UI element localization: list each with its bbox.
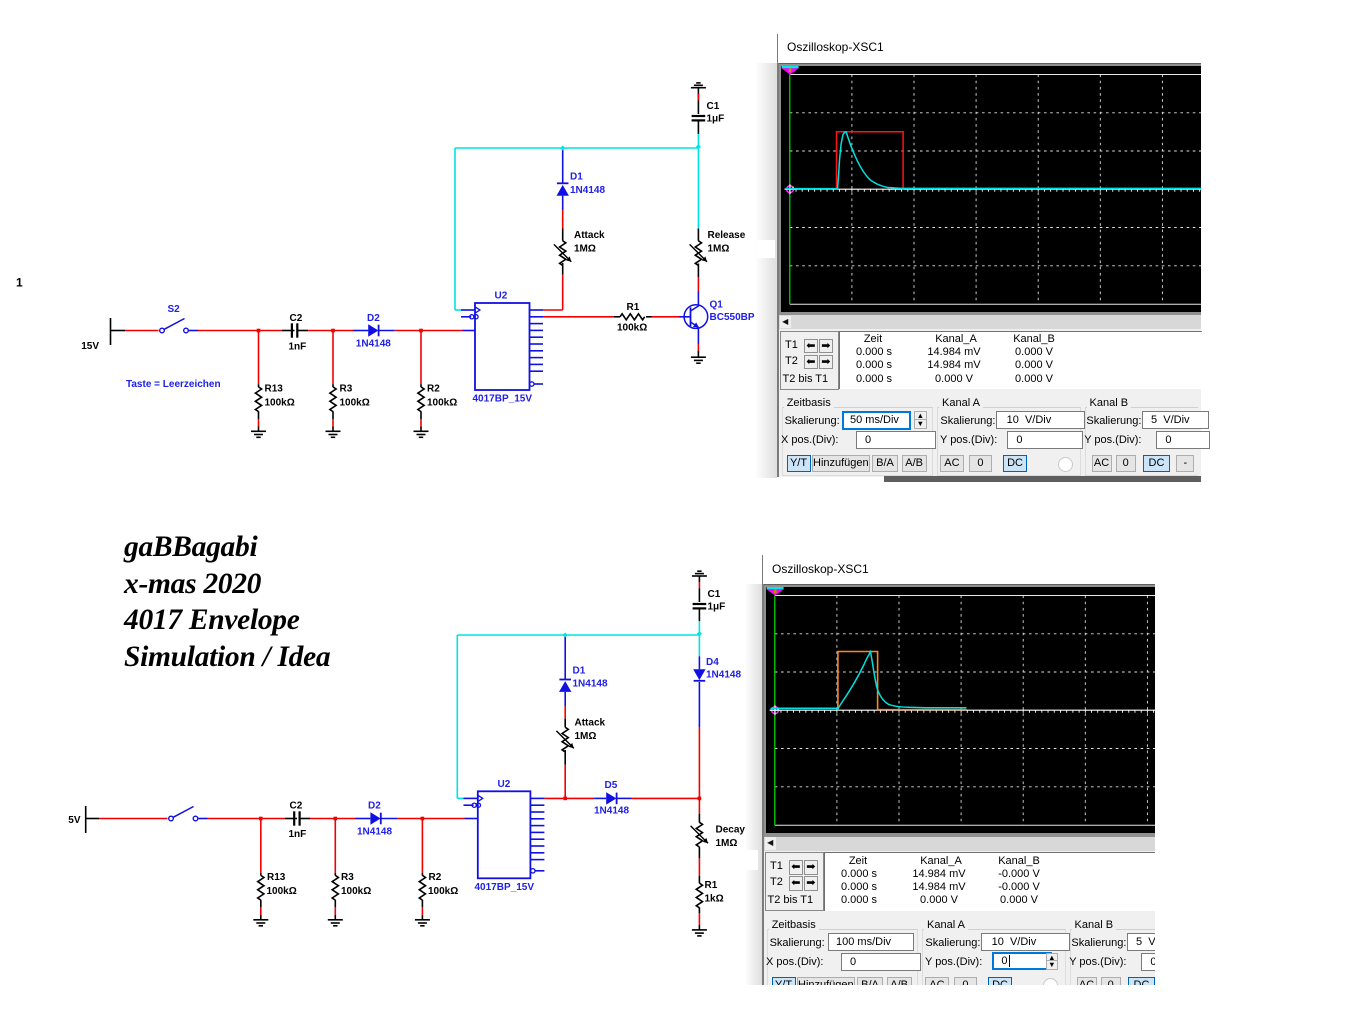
node junction R13 bbox=[257, 329, 261, 333]
U2 output pin Q7 bbox=[530, 845, 544, 847]
svg-text:D1: D1 bbox=[570, 172, 583, 183]
readout row 1 bbox=[827, 868, 891, 880]
U2 output pin Q3 bbox=[530, 818, 544, 820]
potentiometer Decay 1M bbox=[691, 798, 708, 883]
A/B button bbox=[887, 977, 912, 994]
Kanal B 0 button bbox=[1116, 455, 1136, 472]
ground below R2 bbox=[415, 920, 430, 926]
scope display bbox=[766, 587, 1186, 833]
scope graticule bbox=[781, 66, 1201, 312]
Q1 emitter wire to ground bbox=[697, 328, 699, 358]
node junction R3 bbox=[331, 329, 335, 333]
svg-text:D2: D2 bbox=[367, 313, 380, 324]
capacitor C2 1nF bbox=[282, 323, 308, 337]
IC U2 4017BP_15V bbox=[473, 291, 533, 405]
ground below R3 bbox=[328, 920, 343, 926]
svg-text:R13: R13 bbox=[265, 384, 284, 395]
top window shadow band bbox=[755, 63, 777, 478]
svg-text:1N4148: 1N4148 bbox=[573, 679, 608, 690]
R2 labels bbox=[427, 384, 457, 409]
svg-text:D2: D2 bbox=[368, 801, 381, 812]
Kanal B AC button bbox=[1077, 977, 1097, 994]
U2 input pin wire bbox=[465, 818, 478, 820]
svg-text:1nF: 1nF bbox=[289, 342, 307, 353]
R1 labels bbox=[617, 302, 647, 334]
cyan feedback bus top bbox=[455, 148, 698, 310]
U2 output pin Q1 bbox=[530, 804, 544, 806]
power source 5V bbox=[68, 806, 99, 833]
node junction R2 bbox=[419, 329, 423, 333]
trigger marker bbox=[766, 587, 783, 596]
svg-text:S2: S2 bbox=[168, 304, 181, 315]
diode D1 1N4148 bbox=[559, 635, 571, 719]
transistor Q1 BC550BP bbox=[679, 305, 708, 329]
scope display bbox=[781, 66, 1201, 312]
cyan junction at C1 bbox=[697, 631, 702, 636]
Hinzufuegen button bbox=[812, 455, 870, 472]
Kanal A Y position field bbox=[1007, 431, 1082, 449]
resistor R1 1k bbox=[696, 883, 702, 930]
Kanal B DC button (selected) bbox=[1143, 455, 1170, 472]
svg-text:Decay: Decay bbox=[716, 825, 746, 836]
D4 labels bbox=[706, 657, 741, 681]
svg-text:1N4148: 1N4148 bbox=[356, 339, 391, 350]
Kanal A DC button (selected) bbox=[988, 977, 1012, 994]
ground above C1 bbox=[692, 571, 707, 576]
wire D2 to U2 bbox=[397, 818, 465, 820]
U2 output pin Q8 bbox=[530, 852, 544, 854]
U2 reset pin (pin 15) bbox=[461, 315, 478, 319]
channel A envelope trace (cyan) bbox=[785, 132, 1201, 189]
svg-text:1MΩ: 1MΩ bbox=[716, 838, 738, 849]
channel B square pulse (red) bbox=[836, 131, 903, 188]
Attack labels bbox=[575, 718, 606, 743]
top window bottom edge bar bbox=[884, 476, 1202, 482]
Zeitbasis group bbox=[782, 407, 933, 476]
svg-text:U2: U2 bbox=[495, 291, 508, 302]
window left border bbox=[762, 555, 764, 998]
D2 labels bbox=[357, 801, 392, 838]
T1 T2 cursor box bbox=[765, 852, 824, 911]
Kanal B AC button bbox=[1092, 455, 1112, 472]
Kanal B DC button (selected) bbox=[1128, 977, 1155, 994]
svg-text:100kΩ: 100kΩ bbox=[265, 398, 295, 409]
svg-text:C1: C1 bbox=[707, 101, 720, 112]
switch (space key) bbox=[169, 807, 208, 821]
power source V1 15V bbox=[81, 318, 125, 352]
scope display frame bbox=[779, 63, 1202, 316]
svg-text:D5: D5 bbox=[605, 780, 618, 791]
wire S2 to C2 bbox=[198, 330, 282, 332]
Kanal A group bbox=[937, 407, 1081, 476]
D5 labels bbox=[594, 780, 629, 817]
C2 labels bbox=[289, 801, 307, 841]
svg-text:15V: 15V bbox=[81, 341, 99, 352]
C1 labels bbox=[708, 589, 726, 613]
diode D2 1N4148 bbox=[355, 812, 397, 824]
capacitor C1 1uF bbox=[693, 576, 707, 635]
svg-text:Release: Release bbox=[708, 230, 746, 241]
U2 output pin Q4 bbox=[530, 336, 544, 338]
cursor readout panel bbox=[824, 852, 1188, 911]
channel B square pulse (orange) bbox=[837, 652, 966, 711]
trigger marker bbox=[781, 66, 798, 75]
resistor R3 100k bbox=[330, 331, 336, 432]
U2 carry out pin (inverted) bbox=[531, 869, 545, 873]
svg-text:100kΩ: 100kΩ bbox=[617, 323, 647, 334]
svg-text:R2: R2 bbox=[429, 872, 442, 883]
U2 output pin Q9 bbox=[530, 859, 544, 861]
R13 labels bbox=[265, 384, 295, 409]
svg-text:100kΩ: 100kΩ bbox=[267, 886, 297, 897]
svg-text:1: 1 bbox=[16, 276, 23, 290]
resistor R2 100k bbox=[418, 331, 424, 432]
node 1 page label bbox=[16, 276, 23, 290]
R13 labels bbox=[267, 872, 297, 897]
Kanal B scale field bbox=[1127, 933, 1194, 951]
spinner buttons bbox=[1046, 953, 1058, 970]
C2 labels bbox=[289, 313, 307, 353]
svg-text:100kΩ: 100kΩ bbox=[340, 398, 370, 409]
U2 reset pin bbox=[464, 803, 481, 807]
U2 output pin Q5 bbox=[530, 831, 544, 833]
window title bar bbox=[763, 555, 1186, 584]
cyan feedback bus bottom bbox=[457, 635, 699, 798]
oscilloscope window XSC1 (bot) bbox=[762, 555, 1186, 998]
svg-text:R2: R2 bbox=[427, 384, 440, 395]
svg-text:R1: R1 bbox=[627, 302, 640, 313]
Kanal B Y position field bbox=[1156, 431, 1210, 449]
D2 labels bbox=[356, 313, 391, 350]
U2 output pin Q3 bbox=[530, 329, 544, 331]
trigger edge circle bbox=[1043, 978, 1058, 993]
node junction R2 bbox=[421, 817, 425, 821]
ground below R13 bbox=[251, 431, 266, 437]
readout row 2 bbox=[827, 881, 891, 893]
ground below Q1 bbox=[691, 357, 706, 363]
ground above C1 bbox=[691, 83, 706, 88]
readout row 1 bbox=[842, 346, 906, 358]
B/A button bbox=[872, 455, 898, 472]
node junction Decay branch bbox=[698, 797, 702, 801]
resistor R1 100k bbox=[543, 314, 679, 320]
U2 output pin Q7 bbox=[530, 357, 544, 359]
Zeitbasis scale field bbox=[828, 933, 914, 951]
svg-text:BC550BP: BC550BP bbox=[710, 312, 755, 323]
wire C2 to D2 bbox=[308, 330, 353, 332]
svg-text:100kΩ: 100kΩ bbox=[428, 886, 458, 897]
U2 clock pin (pin 14) bbox=[461, 307, 480, 313]
svg-text:U2: U2 bbox=[498, 779, 511, 790]
spinner buttons bbox=[914, 411, 928, 429]
readout header row bbox=[827, 855, 889, 867]
capacitor C2 1nF bbox=[285, 811, 310, 825]
svg-text:1N4148: 1N4148 bbox=[357, 827, 392, 838]
cyan junction at D1 bbox=[563, 632, 568, 637]
diode D1 1N4148 bbox=[557, 148, 569, 229]
readout row 2 bbox=[842, 359, 906, 371]
Kanal A 0 button bbox=[954, 977, 978, 994]
svg-text:1nF: 1nF bbox=[289, 829, 307, 840]
U2 output pin Q4 bbox=[530, 825, 544, 827]
switch S2 bbox=[160, 304, 198, 333]
Kanal B 0 button bbox=[1101, 977, 1121, 994]
zero baseline with ticks bbox=[784, 189, 1201, 192]
svg-text:Taste = Leerzeichen: Taste = Leerzeichen bbox=[126, 379, 221, 390]
Zeitbasis group bbox=[767, 929, 918, 998]
U2 output pin Q2 bbox=[530, 811, 544, 813]
svg-text:1kΩ: 1kΩ bbox=[705, 894, 724, 905]
R2 labels bbox=[428, 872, 458, 897]
cursor readout panel bbox=[839, 331, 1203, 390]
Q1 labels bbox=[710, 300, 755, 324]
scope graticule bbox=[766, 587, 1186, 833]
wire switch to C2 bbox=[208, 818, 286, 820]
X position field bbox=[841, 953, 921, 971]
U2 output pin Q9 bbox=[530, 370, 544, 372]
Kanal B minus button bbox=[1176, 455, 1194, 472]
X position field bbox=[856, 431, 936, 449]
ground below R2 bbox=[414, 431, 429, 437]
U2 output pin Q0 bbox=[530, 309, 544, 311]
IC U2 4017BP_15V bbox=[475, 779, 535, 893]
ground below R3 bbox=[326, 431, 341, 437]
svg-text:C2: C2 bbox=[290, 801, 303, 812]
T1 T2 cursor box bbox=[780, 331, 839, 390]
potentiometer Release 1M bbox=[690, 148, 707, 306]
potentiometer Attack 1M bbox=[554, 229, 571, 266]
Kanal B Y position field bbox=[1141, 953, 1195, 971]
readout row 3 bbox=[827, 894, 891, 906]
svg-text:Attack: Attack bbox=[574, 230, 605, 241]
svg-text:Attack: Attack bbox=[575, 718, 606, 729]
svg-text:1MΩ: 1MΩ bbox=[708, 244, 730, 255]
svg-text:1N4148: 1N4148 bbox=[594, 806, 629, 817]
Kanal A 0 button bbox=[969, 455, 993, 472]
B/A button bbox=[857, 977, 883, 994]
D1 labels bbox=[570, 172, 605, 197]
node junction R13 bbox=[259, 817, 263, 821]
C1 labels bbox=[707, 101, 725, 125]
oscilloscope window XSC1 (top) bbox=[777, 34, 1201, 477]
R3 labels bbox=[340, 384, 370, 409]
Kanal B group bbox=[1085, 407, 1198, 476]
Kanal A scale field bbox=[981, 933, 1070, 951]
U2 input pin wire (rail) bbox=[463, 330, 476, 332]
title text gaBBagabi bbox=[124, 529, 524, 675]
readout row 3 bbox=[842, 373, 906, 385]
zero baseline with ticks bbox=[769, 710, 1186, 713]
wire U2 Q0 to D5 rail bbox=[544, 797, 594, 799]
Kanal A DC button (selected) bbox=[1003, 455, 1027, 472]
wire C2 to D2 bbox=[310, 818, 355, 820]
cyan junction at C1 bbox=[696, 144, 701, 149]
resistor R3 100k bbox=[332, 819, 338, 920]
wire V1 to S2 bbox=[125, 330, 159, 332]
scope display frame bbox=[764, 584, 1187, 837]
wire U2 Q0 to Attack branch bbox=[543, 263, 563, 310]
svg-text:Q1: Q1 bbox=[710, 300, 724, 311]
U2 output pin Q8 bbox=[530, 363, 544, 365]
svg-text:5V: 5V bbox=[68, 815, 81, 826]
wire D5 to Decay branch bbox=[632, 797, 700, 799]
Kanal A AC button bbox=[940, 455, 964, 472]
U2 output pin Q6 bbox=[530, 838, 544, 840]
svg-text:100kΩ: 100kΩ bbox=[341, 886, 371, 897]
svg-text:D1: D1 bbox=[573, 666, 586, 677]
Kanal A scale field bbox=[996, 411, 1085, 429]
svg-text:R1: R1 bbox=[705, 880, 718, 891]
ground below R1 bbox=[692, 930, 707, 936]
U2 clock pin bbox=[464, 796, 483, 802]
annotation Taste = Leerzeichen bbox=[126, 379, 221, 390]
Attack labels bbox=[574, 230, 605, 255]
resistor R13 100k bbox=[258, 819, 264, 920]
svg-text:C2: C2 bbox=[290, 313, 303, 324]
U2 output pin Q0 bbox=[530, 797, 544, 799]
svg-text:R3: R3 bbox=[340, 384, 353, 395]
channel A envelope trace (cyan) bbox=[770, 652, 966, 709]
svg-text:R3: R3 bbox=[341, 872, 354, 883]
Kanal B minus button bbox=[1161, 977, 1179, 994]
D1 labels bbox=[573, 666, 608, 690]
bottom window shadow band bbox=[745, 584, 762, 985]
R3 labels bbox=[341, 872, 371, 897]
wire D2 to U2 bbox=[395, 330, 463, 332]
resistor R2 100k bbox=[419, 819, 425, 920]
wire 5V to switch bbox=[99, 818, 168, 820]
Kanal A group bbox=[922, 929, 1066, 998]
U2 output pin Q5 bbox=[530, 343, 544, 345]
Kanal B group bbox=[1070, 929, 1183, 998]
U2 carry out pin (inverted) bbox=[530, 382, 543, 386]
svg-text:1μF: 1μF bbox=[708, 602, 726, 613]
potentiometer Attack 1M bbox=[556, 719, 573, 799]
channel axis line (green) bbox=[788, 74, 790, 304]
Kanal A AC button bbox=[925, 977, 949, 994]
node junction R3 bbox=[334, 817, 338, 821]
horizontal scrollbar bbox=[779, 315, 1202, 329]
Zeitbasis scale field (focused) bbox=[842, 411, 911, 430]
U2 output pin Q6 bbox=[530, 350, 544, 352]
Kanal A Y position field (focused) bbox=[992, 952, 1052, 970]
Y/T button (selected) bbox=[772, 977, 796, 994]
U2 output pin Q2 bbox=[530, 323, 544, 325]
R1 labels bbox=[705, 880, 724, 905]
svg-text:C1: C1 bbox=[708, 589, 721, 600]
capacitor C1 1uF bbox=[692, 88, 706, 148]
svg-text:1μF: 1μF bbox=[707, 114, 725, 125]
svg-text:4017BP_15V: 4017BP_15V bbox=[475, 882, 535, 893]
Hinzufuegen button bbox=[797, 977, 855, 994]
node junction Attack branch bbox=[563, 797, 567, 801]
svg-text:1N4148: 1N4148 bbox=[706, 670, 741, 681]
svg-text:4017BP_15V: 4017BP_15V bbox=[473, 394, 533, 405]
readout header row bbox=[842, 333, 904, 345]
diode D5 1N4148 bbox=[594, 792, 632, 804]
Kanal B scale field bbox=[1142, 411, 1209, 429]
ground below R13 bbox=[253, 920, 268, 926]
diode D2 1N4148 bbox=[353, 324, 395, 336]
Release labels bbox=[708, 230, 746, 255]
channel axis line (green) bbox=[773, 596, 775, 826]
window left border bbox=[777, 34, 779, 477]
svg-text:1N4148: 1N4148 bbox=[570, 185, 605, 196]
Decay labels bbox=[716, 825, 746, 850]
channel marker circle bbox=[770, 705, 780, 715]
channel marker circle bbox=[785, 184, 795, 194]
horizontal scrollbar bbox=[764, 837, 1187, 851]
svg-text:1MΩ: 1MΩ bbox=[575, 731, 597, 742]
cyan junction at D1 bbox=[560, 145, 565, 150]
svg-text:100kΩ: 100kΩ bbox=[427, 398, 457, 409]
window title bar bbox=[778, 34, 1201, 63]
trigger edge circle bbox=[1058, 457, 1073, 472]
svg-text:1MΩ: 1MΩ bbox=[574, 244, 596, 255]
svg-text:R13: R13 bbox=[267, 872, 286, 883]
svg-text:D4: D4 bbox=[706, 657, 719, 668]
diode D4 1N4148 bbox=[693, 635, 705, 798]
resistor R13 100k bbox=[255, 331, 261, 432]
A/B button bbox=[902, 455, 927, 472]
Y/T button (selected) bbox=[787, 455, 811, 472]
U2 output pin Q1 bbox=[530, 316, 544, 318]
